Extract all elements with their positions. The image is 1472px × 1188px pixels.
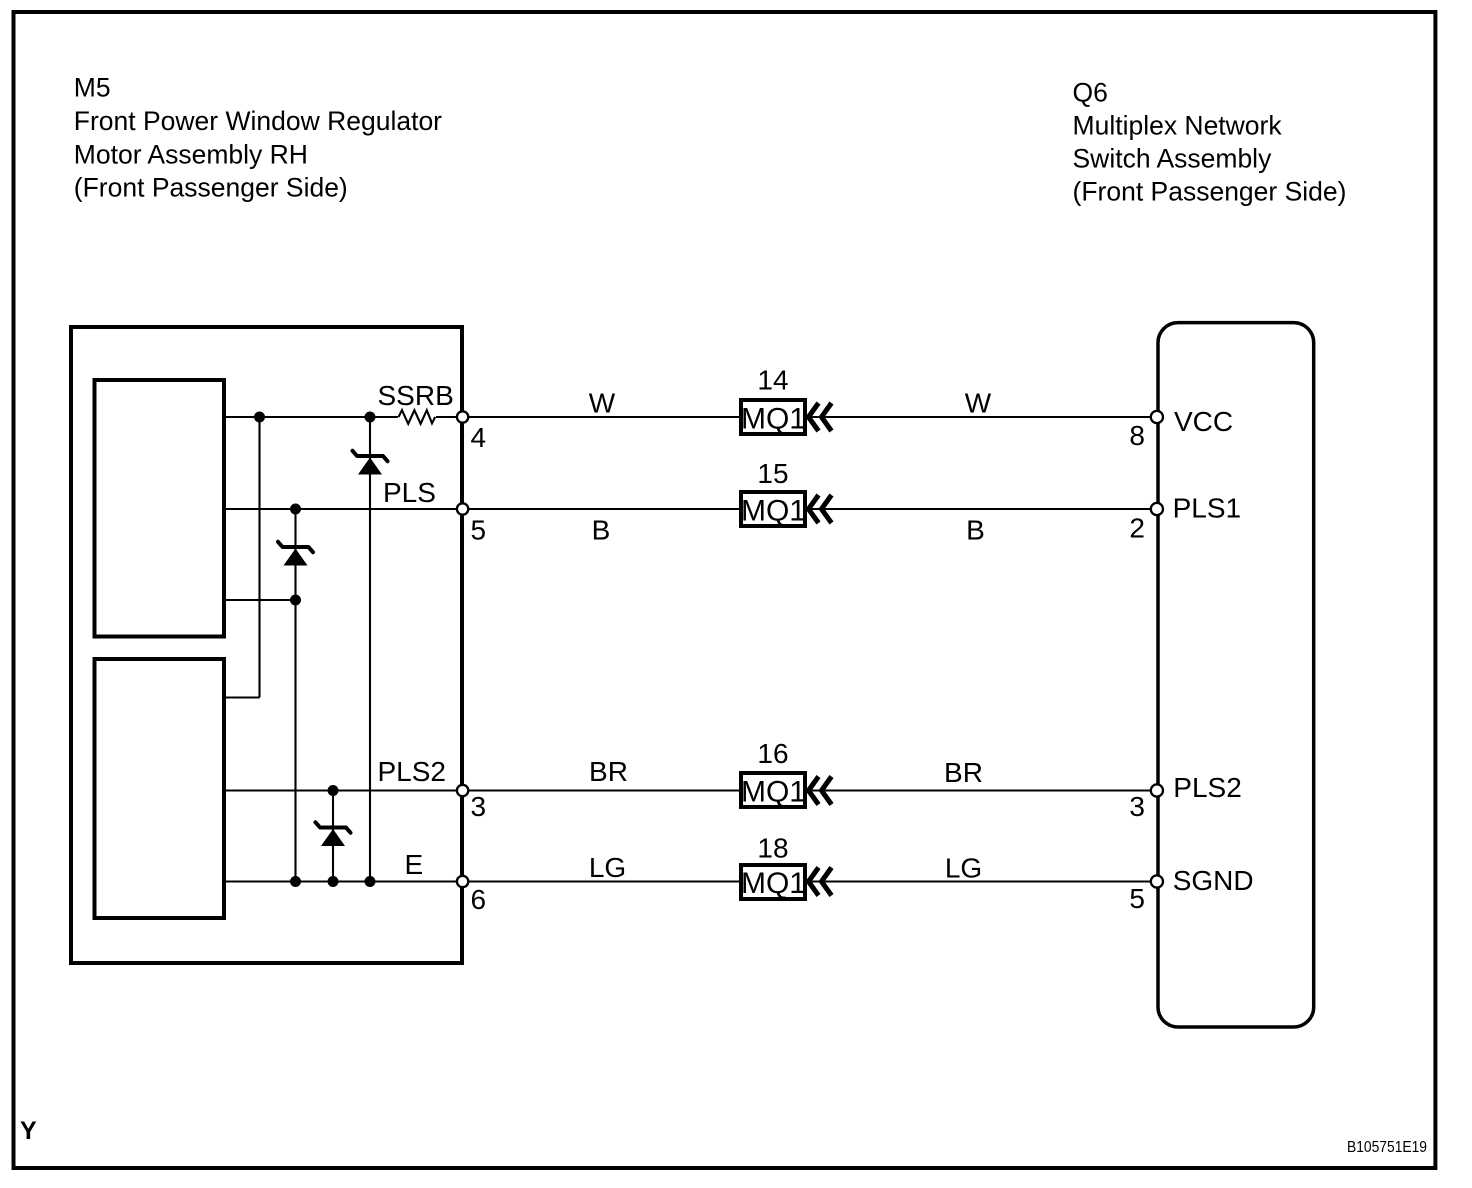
svg-text:4: 4 [471,422,487,453]
svg-text:3: 3 [471,791,487,822]
svg-text:B: B [966,515,985,546]
svg-text:Q6: Q6 [1073,78,1108,108]
svg-text:W: W [589,388,616,419]
svg-text:18: 18 [757,833,788,864]
svg-text:(Front Passenger Side): (Front Passenger Side) [1073,177,1347,207]
svg-text:BR: BR [944,757,983,788]
svg-text:Motor Assembly RH: Motor Assembly RH [74,140,308,170]
svg-text:MQ1: MQ1 [741,867,806,900]
svg-text:SGND: SGND [1173,865,1254,896]
svg-text:PLS1: PLS1 [1173,493,1242,524]
svg-text:B: B [592,515,611,546]
svg-text:PLS2: PLS2 [1173,772,1242,803]
svg-text:MQ1: MQ1 [741,403,806,436]
svg-text:Switch Assembly: Switch Assembly [1073,144,1273,174]
svg-text:Y: Y [20,1117,37,1145]
svg-text:BR: BR [589,756,628,787]
svg-text:16: 16 [757,738,788,769]
svg-text:M5: M5 [74,73,111,103]
svg-text:2: 2 [1129,513,1145,544]
svg-text:MQ1: MQ1 [741,776,806,809]
svg-text:W: W [965,388,992,419]
svg-text:3: 3 [1129,791,1145,822]
svg-text:PLS2: PLS2 [378,756,447,787]
svg-text:E: E [405,849,424,880]
svg-text:8: 8 [1129,420,1145,451]
svg-text:B105751E19: B105751E19 [1347,1139,1427,1156]
svg-text:VCC: VCC [1174,406,1233,437]
svg-text:PLS: PLS [383,477,436,508]
svg-text:LG: LG [945,853,982,884]
svg-text:14: 14 [757,365,788,396]
svg-text:MQ1: MQ1 [741,495,806,528]
svg-text:5: 5 [1129,883,1145,914]
svg-text:Front Power Window Regulator: Front Power Window Regulator [74,106,442,136]
svg-text:LG: LG [589,852,626,883]
svg-text:(Front Passenger Side): (Front Passenger Side) [74,173,348,203]
svg-text:Multiplex Network: Multiplex Network [1073,111,1283,141]
svg-text:5: 5 [471,515,487,546]
svg-text:6: 6 [471,884,487,915]
svg-text:SSRB: SSRB [378,380,454,411]
svg-text:15: 15 [757,458,788,489]
